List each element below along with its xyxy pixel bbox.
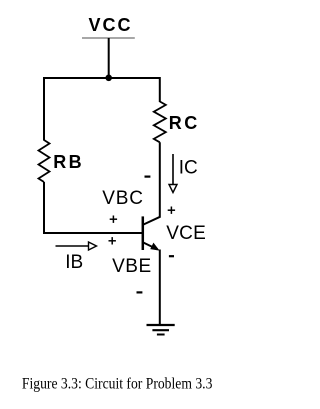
VBC minus sign: [145, 176, 151, 178]
VBC plus sign: [110, 216, 117, 223]
wire left lower: [43, 182, 45, 234]
transistor Q1 emitter lead: [144, 243, 158, 250]
resistor RB: [39, 140, 50, 182]
VCE minus sign: [169, 255, 174, 257]
VCE plus sign: [168, 207, 175, 214]
svg-text:VCC: VCC: [89, 15, 133, 35]
transistor Q1 collector lead: [144, 217, 161, 225]
svg-text:RB: RB: [53, 152, 84, 172]
ground symbol: [147, 325, 175, 335]
VBE plus sign: [109, 237, 116, 244]
wire left upper: [43, 77, 45, 141]
junction dot: [105, 75, 112, 82]
wire collector vertical: [159, 142, 161, 217]
transistor Q1 base bar: [142, 216, 145, 250]
svg-text:IB: IB: [65, 252, 83, 273]
svg-text:IC: IC: [179, 158, 198, 179]
wire VCC stub: [108, 38, 110, 78]
svg-text:VCE: VCE: [166, 223, 206, 244]
current arrow IC: [169, 154, 177, 193]
wire base horizontal: [43, 232, 143, 234]
svg-text:VBC: VBC: [102, 188, 143, 209]
resistor RC: [154, 102, 166, 143]
transistor Q1 emitter arrowhead: [151, 243, 159, 250]
wire emitter vertical: [159, 250, 161, 326]
wire top horizontal: [44, 77, 160, 79]
svg-text:VBE: VBE: [112, 256, 152, 277]
power symbol VCC bar: [82, 37, 135, 39]
svg-text:Figure 3.3: Circuit for Proble: Figure 3.3: Circuit for Problem 3.3: [22, 376, 213, 393]
VBE minus sign: [137, 291, 143, 293]
svg-text:RC: RC: [169, 113, 200, 133]
wire right upper: [159, 77, 161, 102]
current arrow IB: [56, 242, 97, 250]
